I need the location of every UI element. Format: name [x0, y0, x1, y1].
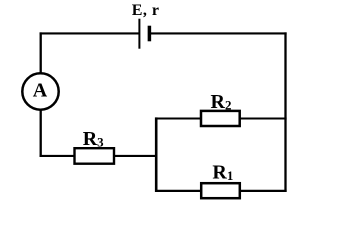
wire: top rail, left segment from top-left corner to battery: [40, 32, 140, 34]
wire: right vertical rail from top rail down to R1 branch: [284, 32, 286, 192]
wire: R2 branch, right lead from R2 to right rail: [239, 117, 287, 119]
svg-text:R3: R3: [83, 128, 104, 150]
battery E,r : short thick negative plate: [148, 26, 152, 42]
wire: R3 branch, right lead from R3 to junction node: [114, 155, 157, 157]
svg-text:E, r: E, r: [132, 2, 160, 19]
wire: R3 branch, left lead from left rail to R3: [40, 155, 75, 157]
resistor R3 body: [75, 148, 115, 164]
svg-text:A: A: [33, 80, 48, 102]
wire: top rail, right segment from battery to top-right corner: [149, 32, 286, 34]
svg-text:R1: R1: [212, 161, 233, 183]
resistor R1 body: [201, 183, 240, 198]
ammeter A body (circle): [22, 73, 58, 109]
svg-text:R2: R2: [211, 91, 232, 113]
wire: left vertical from top-left corner down to ammeter: [40, 32, 42, 73]
resistor R2 body: [201, 111, 240, 126]
battery E,r : long positive plate: [138, 19, 140, 49]
wire: junction vertical connecting R2 and R1 branches: [155, 117, 158, 192]
wire: R2 branch, left lead from junction to R2: [155, 117, 202, 119]
wire: R1 branch, right lead from R1 to right rail: [240, 190, 287, 192]
wire: left vertical from ammeter down to R3 branch: [40, 110, 42, 157]
wire: R1 branch, left lead from junction to R1: [155, 190, 202, 192]
